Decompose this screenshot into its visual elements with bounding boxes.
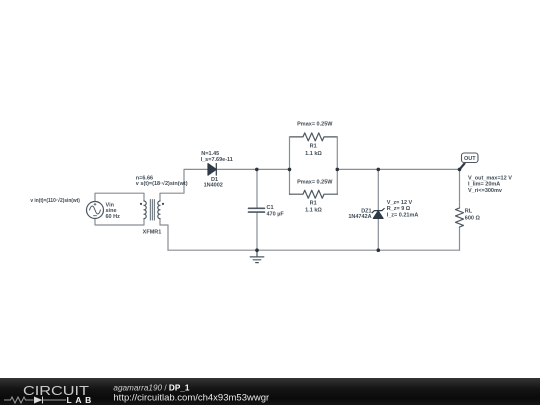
svg-text:Pmax= 0.25W: Pmax= 0.25W [297, 122, 333, 128]
zener diode DZ1 [372, 209, 384, 219]
wire diode to R block [216, 168, 289, 170]
wire capacitor branch [256, 169, 258, 250]
svg-text:R1: R1 [310, 201, 317, 207]
svg-text:http://circuitlab.com/ch4x93m5: http://circuitlab.com/ch4x93m53wwgr [113, 392, 269, 403]
svg-text:60 Hz: 60 Hz [106, 214, 121, 220]
wire Vin loop bottom [95, 219, 144, 226]
svg-text:1N4742A: 1N4742A [348, 214, 371, 220]
svg-text:1.1 kΩ: 1.1 kΩ [305, 207, 322, 213]
resistor R1 bottom [290, 190, 338, 198]
wire zener branch [377, 169, 379, 250]
wire Vin loop top [95, 193, 144, 201]
svg-text:Pmax= 0.25W: Pmax= 0.25W [297, 179, 333, 185]
transformer XFMR1 [144, 200, 160, 221]
svg-text:OUT: OUT [464, 156, 476, 162]
svg-text:600 Ω: 600 Ω [465, 215, 481, 221]
svg-text:v s(t)=(18·√2)sin(wt): v s(t)=(18·√2)sin(wt) [136, 180, 188, 187]
wire R block right leg [336, 137, 338, 194]
resistor RL [456, 208, 464, 227]
svg-text:C1: C1 [267, 205, 274, 211]
svg-text:R_z= 9 Ω: R_z= 9 Ω [387, 206, 411, 212]
resistor R1 top [290, 133, 338, 141]
ground [250, 250, 264, 262]
svg-text:agamarra190 / DP_1: agamarra190 / DP_1 [113, 384, 189, 393]
svg-text:I_lim= 20mA: I_lim= 20mA [468, 182, 500, 188]
wire bottom rail [168, 249, 460, 251]
svg-text:V_ri<=300mv: V_ri<=300mv [468, 188, 503, 194]
svg-text:1N4002: 1N4002 [204, 183, 223, 189]
svg-text:I_s=7.69e-11: I_s=7.69e-11 [201, 157, 233, 163]
node junction dots [255, 168, 259, 172]
svg-text:RL: RL [465, 209, 473, 215]
voltage source Vin [87, 202, 104, 219]
wire RL branch [459, 169, 461, 250]
svg-text:I_z= 0.21mA: I_z= 0.21mA [387, 212, 419, 218]
svg-text:470 µF: 470 µF [267, 211, 285, 217]
wire R block left leg [289, 137, 291, 194]
footer bar [0, 378, 540, 405]
capacitor C1 [249, 208, 265, 212]
wire secondary bottom to ground rail [160, 219, 168, 251]
wire R block to OUT node [337, 168, 459, 170]
svg-text:LAB: LAB [67, 395, 92, 405]
svg-text:R1: R1 [310, 144, 317, 150]
OUT flag [460, 164, 465, 170]
svg-text:v in(t)=(110·√2)sin(wt): v in(t)=(110·√2)sin(wt) [30, 197, 80, 204]
diode D1 [208, 164, 216, 176]
svg-text:XFMR1: XFMR1 [143, 230, 162, 236]
wire secondary top to diode [160, 169, 208, 201]
svg-text:1.1 kΩ: 1.1 kΩ [305, 151, 322, 157]
